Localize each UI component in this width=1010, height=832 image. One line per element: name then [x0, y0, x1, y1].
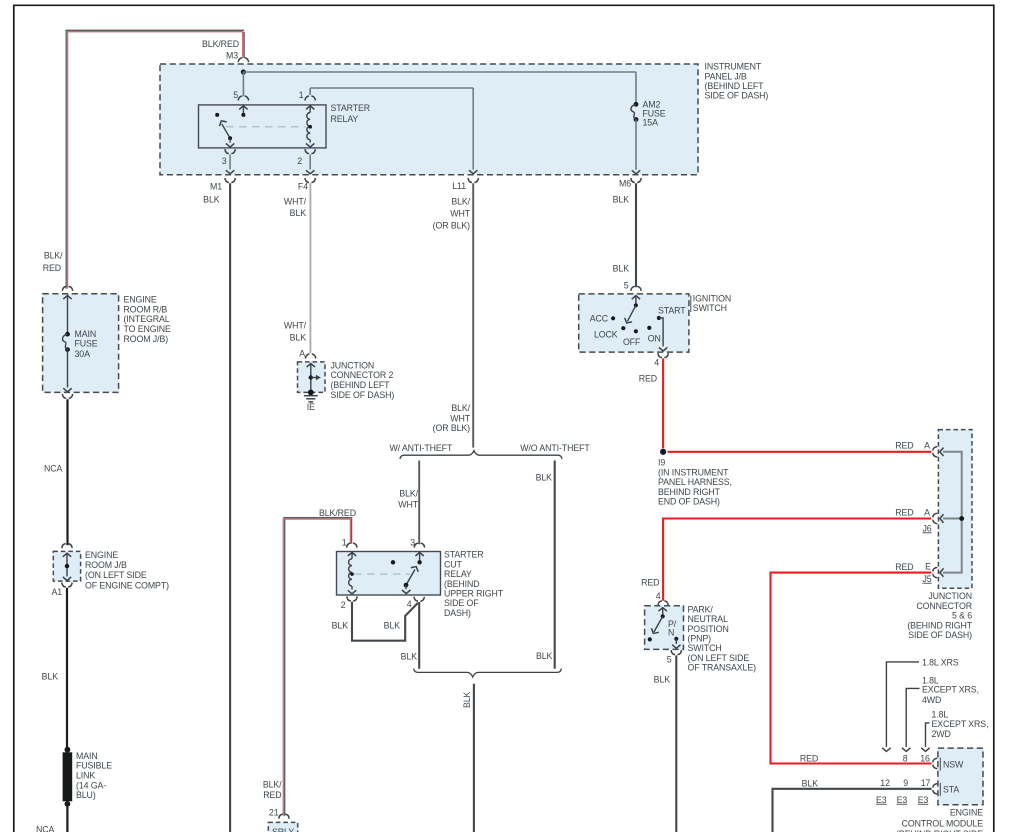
junction connector 5 and 6 box	[938, 430, 972, 589]
svg-text:4WD: 4WD	[922, 695, 941, 705]
engine control module box	[938, 748, 983, 805]
svg-text:ON: ON	[648, 333, 661, 343]
svg-text:(OR BLK): (OR BLK)	[433, 423, 470, 433]
svg-text:E3: E3	[897, 795, 908, 805]
svg-text:(PNP): (PNP)	[688, 634, 712, 644]
svg-text:BLK/RED: BLK/RED	[319, 508, 356, 518]
svg-text:BLK/: BLK/	[451, 197, 470, 207]
svg-text:BLU): BLU)	[76, 790, 96, 800]
wire RED ignition to I9	[662, 358, 664, 448]
wire BLK w/o anti-theft branch	[554, 461, 556, 669]
starter cut relay box U2	[337, 552, 441, 596]
wire M1 BLK down	[229, 183, 231, 832]
svg-text:8: 8	[903, 754, 908, 764]
wire pin1 over to L11	[309, 88, 311, 95]
svg-text:ROOM J/B): ROOM J/B)	[124, 334, 169, 344]
svg-text:21: 21	[269, 808, 279, 818]
svg-text:12: 12	[880, 778, 890, 788]
wire F4 WHT/BLK down	[309, 183, 311, 353]
wire to AM2 fuse	[243, 71, 636, 73]
connector pin E J5	[933, 567, 938, 577]
svg-text:BLK: BLK	[401, 651, 418, 661]
PNP contacts	[659, 608, 667, 612]
brace merge to single BLK	[414, 669, 562, 677]
junction connector 2 box	[298, 362, 326, 393]
svg-text:A: A	[299, 348, 305, 358]
connector R/B bottom	[62, 394, 72, 399]
svg-text:(INTEGRAL: (INTEGRAL	[124, 314, 170, 324]
svg-text:15A: 15A	[643, 117, 659, 127]
mechanical link dashes	[226, 126, 305, 128]
svg-text:TO ENGINE: TO ENGINE	[124, 324, 172, 334]
svg-text:INSTRUMENT: INSTRUMENT	[705, 62, 762, 72]
svg-text:2: 2	[297, 156, 302, 166]
connector A1	[62, 583, 72, 588]
engine room R/B box	[43, 294, 119, 393]
svg-text:SWITCH: SWITCH	[693, 303, 727, 313]
svg-text:RED: RED	[43, 263, 61, 273]
svg-text:IE: IE	[307, 402, 315, 412]
SRLY box	[268, 822, 297, 832]
svg-text:SIDE OF DASH): SIDE OF DASH)	[331, 390, 395, 400]
svg-text:BLK/: BLK/	[263, 780, 282, 790]
svg-text:BLK: BLK	[462, 691, 472, 708]
svg-text:(ON LEFT SIDE: (ON LEFT SIDE	[688, 653, 750, 663]
connector NSW pin	[933, 758, 938, 768]
svg-text:SWITCH: SWITCH	[688, 643, 722, 653]
wire pin2 to F4	[309, 155, 311, 170]
cut relay coil	[348, 552, 356, 556]
svg-text:BLK: BLK	[290, 208, 307, 218]
arrow 1.8L EXCEPT XRS 2WD	[926, 723, 930, 747]
svg-text:(BEHIND: (BEHIND	[444, 579, 479, 589]
wire pin 4 BLK down	[418, 602, 420, 669]
svg-text:BLK: BLK	[203, 194, 220, 204]
svg-text:EXCEPT XRS,: EXCEPT XRS,	[922, 685, 979, 695]
svg-text:EXCEPT XRS,: EXCEPT XRS,	[932, 719, 989, 729]
svg-text:2: 2	[341, 600, 346, 610]
splice I9	[660, 449, 666, 455]
svg-text:(BEHIND LEFT: (BEHIND LEFT	[705, 81, 765, 91]
arrow 1.8L XRS	[886, 662, 919, 747]
svg-text:(14 GA-: (14 GA-	[76, 780, 106, 790]
wire BLK merged down	[473, 684, 475, 832]
svg-text:1.8L XRS: 1.8L XRS	[922, 658, 959, 668]
wire pin3 to M1	[229, 155, 231, 170]
svg-text:BLK: BLK	[332, 621, 349, 631]
svg-text:RELAY: RELAY	[331, 114, 359, 124]
svg-text:PANEL J/B: PANEL J/B	[705, 71, 747, 81]
wire RED J5 to ECM NSW	[771, 573, 932, 764]
brace anti-theft split	[400, 451, 562, 459]
svg-text:4: 4	[407, 599, 412, 609]
svg-text:LOCK: LOCK	[594, 330, 618, 340]
park/neutral position switch box	[645, 606, 684, 650]
svg-text:BLK: BLK	[42, 671, 59, 681]
svg-text:CONNECTOR: CONNECTOR	[916, 601, 972, 611]
svg-text:ROOM R/B: ROOM R/B	[124, 304, 168, 314]
svg-text:PANEL HARNESS,: PANEL HARNESS,	[658, 477, 732, 487]
svg-text:NCA: NCA	[36, 824, 55, 832]
svg-text:F4: F4	[298, 181, 308, 191]
svg-text:E3: E3	[876, 795, 887, 805]
wire NCA bottom	[66, 804, 68, 832]
wire L11 BLK/WHT down	[472, 183, 474, 447]
arrow 1.8L EXCEPT XRS 4WD	[906, 688, 919, 747]
fuse MAIN 30A	[65, 332, 70, 337]
svg-text:BLK: BLK	[290, 332, 307, 342]
JC2 internal	[307, 364, 315, 368]
connector pin A top	[933, 447, 938, 457]
svg-text:ACC: ACC	[590, 314, 609, 324]
svg-text:SIDE OF DASH): SIDE OF DASH)	[908, 630, 972, 640]
svg-text:W/O ANTI-THEFT: W/O ANTI-THEFT	[520, 443, 590, 453]
svg-text:BLK/: BLK/	[451, 403, 470, 413]
wire RED I9 to junction connector pin A	[668, 451, 932, 453]
svg-text:M6: M6	[619, 179, 631, 189]
svg-text:5: 5	[667, 655, 672, 665]
svg-text:J5: J5	[922, 574, 931, 584]
svg-text:5 & 6: 5 & 6	[952, 611, 972, 621]
svg-text:5: 5	[624, 281, 629, 291]
svg-text:CUT: CUT	[444, 559, 463, 569]
svg-text:2WD: 2WD	[932, 729, 951, 739]
svg-text:1: 1	[299, 90, 304, 100]
svg-text:RELAY: RELAY	[444, 569, 472, 579]
relay switch contacts	[239, 106, 247, 110]
svg-text:L11: L11	[452, 181, 466, 191]
wire pin2 to pin4 ground loop	[352, 602, 418, 641]
connector STA pin	[933, 784, 938, 794]
wire BLK down to fusible link	[66, 588, 68, 750]
svg-text:RED: RED	[263, 790, 281, 800]
svg-text:DASH): DASH)	[444, 608, 471, 618]
svg-text:BLK: BLK	[536, 473, 553, 483]
svg-text:(BEHIND LEFT: (BEHIND LEFT	[331, 380, 391, 390]
svg-text:NEUTRAL: NEUTRAL	[688, 614, 729, 624]
wire RED J6 to PNP switch	[663, 519, 931, 601]
svg-text:NCA: NCA	[44, 463, 63, 473]
svg-text:BEHIND RIGHT: BEHIND RIGHT	[658, 487, 721, 497]
svg-text:WHT: WHT	[450, 209, 470, 219]
svg-text:SRLY: SRLY	[272, 827, 294, 832]
svg-text:W/ ANTI-THEFT: W/ ANTI-THEFT	[390, 443, 453, 453]
svg-text:BLK/: BLK/	[44, 250, 63, 260]
svg-text:A1: A1	[51, 587, 62, 597]
ignition switch box S1	[579, 294, 689, 352]
svg-text:STARTER: STARTER	[444, 550, 484, 560]
svg-text:BLK: BLK	[802, 778, 819, 788]
svg-text:1.8L: 1.8L	[932, 709, 949, 719]
svg-text:17: 17	[921, 778, 931, 788]
svg-text:30A: 30A	[75, 349, 91, 359]
svg-text:A: A	[924, 441, 930, 451]
svg-text:WHT: WHT	[398, 500, 418, 510]
svg-text:(BEHIND RIGHT: (BEHIND RIGHT	[907, 620, 972, 630]
svg-text:M1: M1	[210, 181, 222, 191]
mechanical link dashes	[354, 573, 410, 575]
connector R/B top	[62, 286, 72, 291]
svg-text:PARK/: PARK/	[688, 604, 714, 614]
starter relay box U1	[199, 105, 327, 148]
svg-text:JUNCTION: JUNCTION	[331, 360, 375, 370]
wire PNP BLK down	[675, 655, 677, 832]
wire M6 BLK to ignition switch	[635, 183, 637, 287]
svg-text:OFF: OFF	[623, 337, 641, 347]
svg-text:BLK: BLK	[536, 651, 553, 661]
wire BLK/WHT w/ anti-theft branch	[418, 461, 420, 545]
connector engine room J/B top	[62, 544, 72, 549]
connector pin A J6	[933, 513, 938, 523]
engine room J/B box	[53, 551, 80, 581]
svg-text:RED: RED	[641, 578, 659, 588]
svg-text:1: 1	[342, 537, 347, 547]
svg-text:OF ENGINE COMPT): OF ENGINE COMPT)	[85, 580, 169, 590]
svg-text:POSITION: POSITION	[688, 624, 729, 634]
svg-text:BLK/RED: BLK/RED	[202, 39, 239, 49]
cut relay switch	[415, 552, 423, 556]
svg-text:END OF DASH): END OF DASH)	[658, 497, 720, 507]
svg-text:ENGINE: ENGINE	[124, 294, 157, 304]
START contact wire to pin 4	[659, 318, 663, 347]
svg-text:WHT/: WHT/	[284, 196, 307, 206]
svg-text:CONTROL MODULE: CONTROL MODULE	[902, 818, 984, 828]
svg-text:N: N	[668, 628, 674, 638]
wire BLK/RED from battery (top left)	[65, 31, 67, 289]
svg-text:E: E	[925, 561, 931, 571]
svg-text:RED: RED	[895, 441, 913, 451]
svg-text:9: 9	[903, 778, 908, 788]
ground IE	[308, 390, 314, 396]
svg-text:BLK: BLK	[384, 621, 401, 631]
svg-text:RED: RED	[639, 374, 657, 384]
node at M3	[241, 69, 246, 74]
svg-text:4: 4	[656, 591, 661, 601]
svg-text:I9: I9	[658, 458, 665, 468]
svg-text:SIDE OF DASH): SIDE OF DASH)	[705, 91, 769, 101]
svg-text:SIDE OF: SIDE OF	[444, 598, 479, 608]
wire BLK/RED to starter cut relay	[282, 518, 284, 815]
svg-text:MAIN: MAIN	[75, 329, 97, 339]
fuse AM2 15A	[634, 102, 639, 107]
svg-text:OF TRANSAXLE): OF TRANSAXLE)	[688, 663, 757, 673]
svg-text:4: 4	[654, 358, 659, 368]
main fusible link	[65, 747, 71, 753]
svg-text:IGNITION: IGNITION	[693, 293, 731, 303]
wire AM2 fuse to M6	[635, 120, 637, 170]
R/B internal wire	[63, 296, 71, 300]
svg-text:UPPER RIGHT: UPPER RIGHT	[444, 589, 504, 599]
svg-text:RED: RED	[800, 754, 818, 764]
internal bus wire	[943, 452, 962, 573]
svg-text:FUSIBLE: FUSIBLE	[76, 761, 112, 771]
wire NCA down	[66, 399, 68, 545]
svg-text:BLK: BLK	[613, 194, 630, 204]
svg-text:(ON LEFT SIDE: (ON LEFT SIDE	[85, 570, 147, 580]
svg-text:J6: J6	[922, 523, 931, 533]
svg-text:(IN INSTRUMENT: (IN INSTRUMENT	[658, 467, 729, 477]
svg-text:JUNCTION: JUNCTION	[928, 591, 972, 601]
svg-text:MAIN: MAIN	[76, 751, 98, 761]
svg-text:E3: E3	[918, 795, 929, 805]
svg-text:LINK: LINK	[76, 771, 95, 781]
svg-text:ENGINE: ENGINE	[85, 550, 118, 560]
svg-text:NSW: NSW	[943, 759, 964, 769]
svg-text:BLK: BLK	[613, 264, 630, 274]
svg-text:(OR BLK): (OR BLK)	[433, 220, 470, 230]
svg-text:BLK/: BLK/	[399, 489, 418, 499]
svg-text:ENGINE: ENGINE	[950, 808, 983, 818]
instrument panel J/B box	[160, 64, 698, 175]
svg-text:RED: RED	[895, 507, 913, 517]
svg-text:16: 16	[920, 754, 930, 764]
svg-text:STA: STA	[943, 784, 959, 794]
svg-text:START: START	[658, 306, 686, 316]
svg-text:STARTER: STARTER	[331, 103, 371, 113]
svg-text:ROOM J/B: ROOM J/B	[85, 560, 127, 570]
svg-text:RED: RED	[895, 562, 913, 572]
svg-text:3: 3	[222, 156, 227, 166]
svg-text:WHT/: WHT/	[284, 321, 307, 331]
wire BLK to STA	[773, 789, 932, 832]
svg-text:BLK: BLK	[654, 675, 671, 685]
svg-text:M3: M3	[226, 51, 238, 61]
svg-text:A: A	[924, 507, 930, 517]
relay pin 3	[229, 138, 231, 142]
svg-text:5: 5	[233, 90, 238, 100]
ignition switch contacts	[632, 296, 640, 300]
svg-text:CONNECTOR 2: CONNECTOR 2	[331, 370, 394, 380]
wire M3 node down to relay pin 5	[242, 72, 244, 96]
svg-text:FUSE: FUSE	[75, 339, 98, 349]
